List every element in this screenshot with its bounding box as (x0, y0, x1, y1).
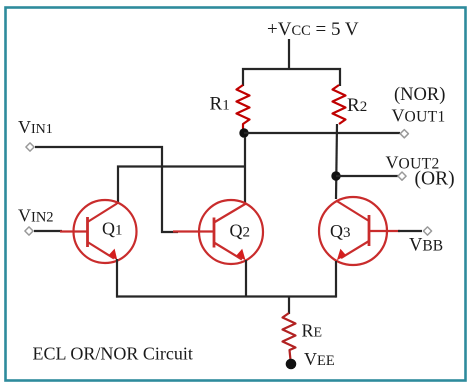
resistor R2 (333, 85, 346, 124)
terminal VOUT1 diamond (400, 130, 408, 138)
wire top rail (243, 69, 340, 86)
terminal VOUT2 diamond (398, 172, 406, 180)
svg-text:ECL OR/NOR Circuit: ECL OR/NOR Circuit (33, 344, 193, 364)
terminal VEE dot (286, 359, 297, 370)
transistor Q1 (60, 200, 137, 263)
svg-text:(NOR): (NOR) (394, 85, 445, 105)
svg-text:(OR): (OR) (415, 169, 455, 190)
svg-text:R1: R1 (210, 94, 230, 115)
transistor Q2 (173, 200, 263, 264)
wire Q3 base to VBB (398, 230, 422, 232)
svg-text:R2: R2 (347, 95, 367, 116)
wire Q3 emitter (335, 261, 337, 298)
resistor R1 (237, 85, 250, 131)
terminal VIN1 diamond (26, 143, 34, 151)
wire emitter rail (116, 295, 336, 297)
terminal VBB diamond (423, 227, 431, 235)
terminal VIN2 diamond (25, 227, 33, 235)
node VOUT2 branch junction (331, 171, 340, 180)
resistor RE (283, 313, 296, 360)
wire VIN1 to Q2 base (35, 147, 178, 232)
wire VIN2 to Q1 base (34, 230, 62, 232)
wire VOUT1 (NOR) output (244, 132, 400, 134)
wire RE stub (288, 297, 290, 315)
wire R1 node to Q2 collector (244, 137, 246, 203)
svg-text:+VCC = 5 V: +VCC = 5 V (267, 19, 359, 40)
svg-text:VBB: VBB (409, 236, 443, 256)
transistor Q3 (319, 197, 400, 265)
svg-text:VOUT1: VOUT1 (392, 106, 446, 126)
wire VOUT2 output (336, 175, 398, 177)
wire Q2 emitter (245, 260, 247, 296)
wire VCC stem (288, 39, 290, 69)
wire Q1 emitter (116, 259, 118, 298)
wire R2 bottom to Q3 collector (336, 124, 337, 199)
wire branch to Q1 collector (118, 167, 246, 205)
node R1 bottom junction (239, 128, 248, 137)
